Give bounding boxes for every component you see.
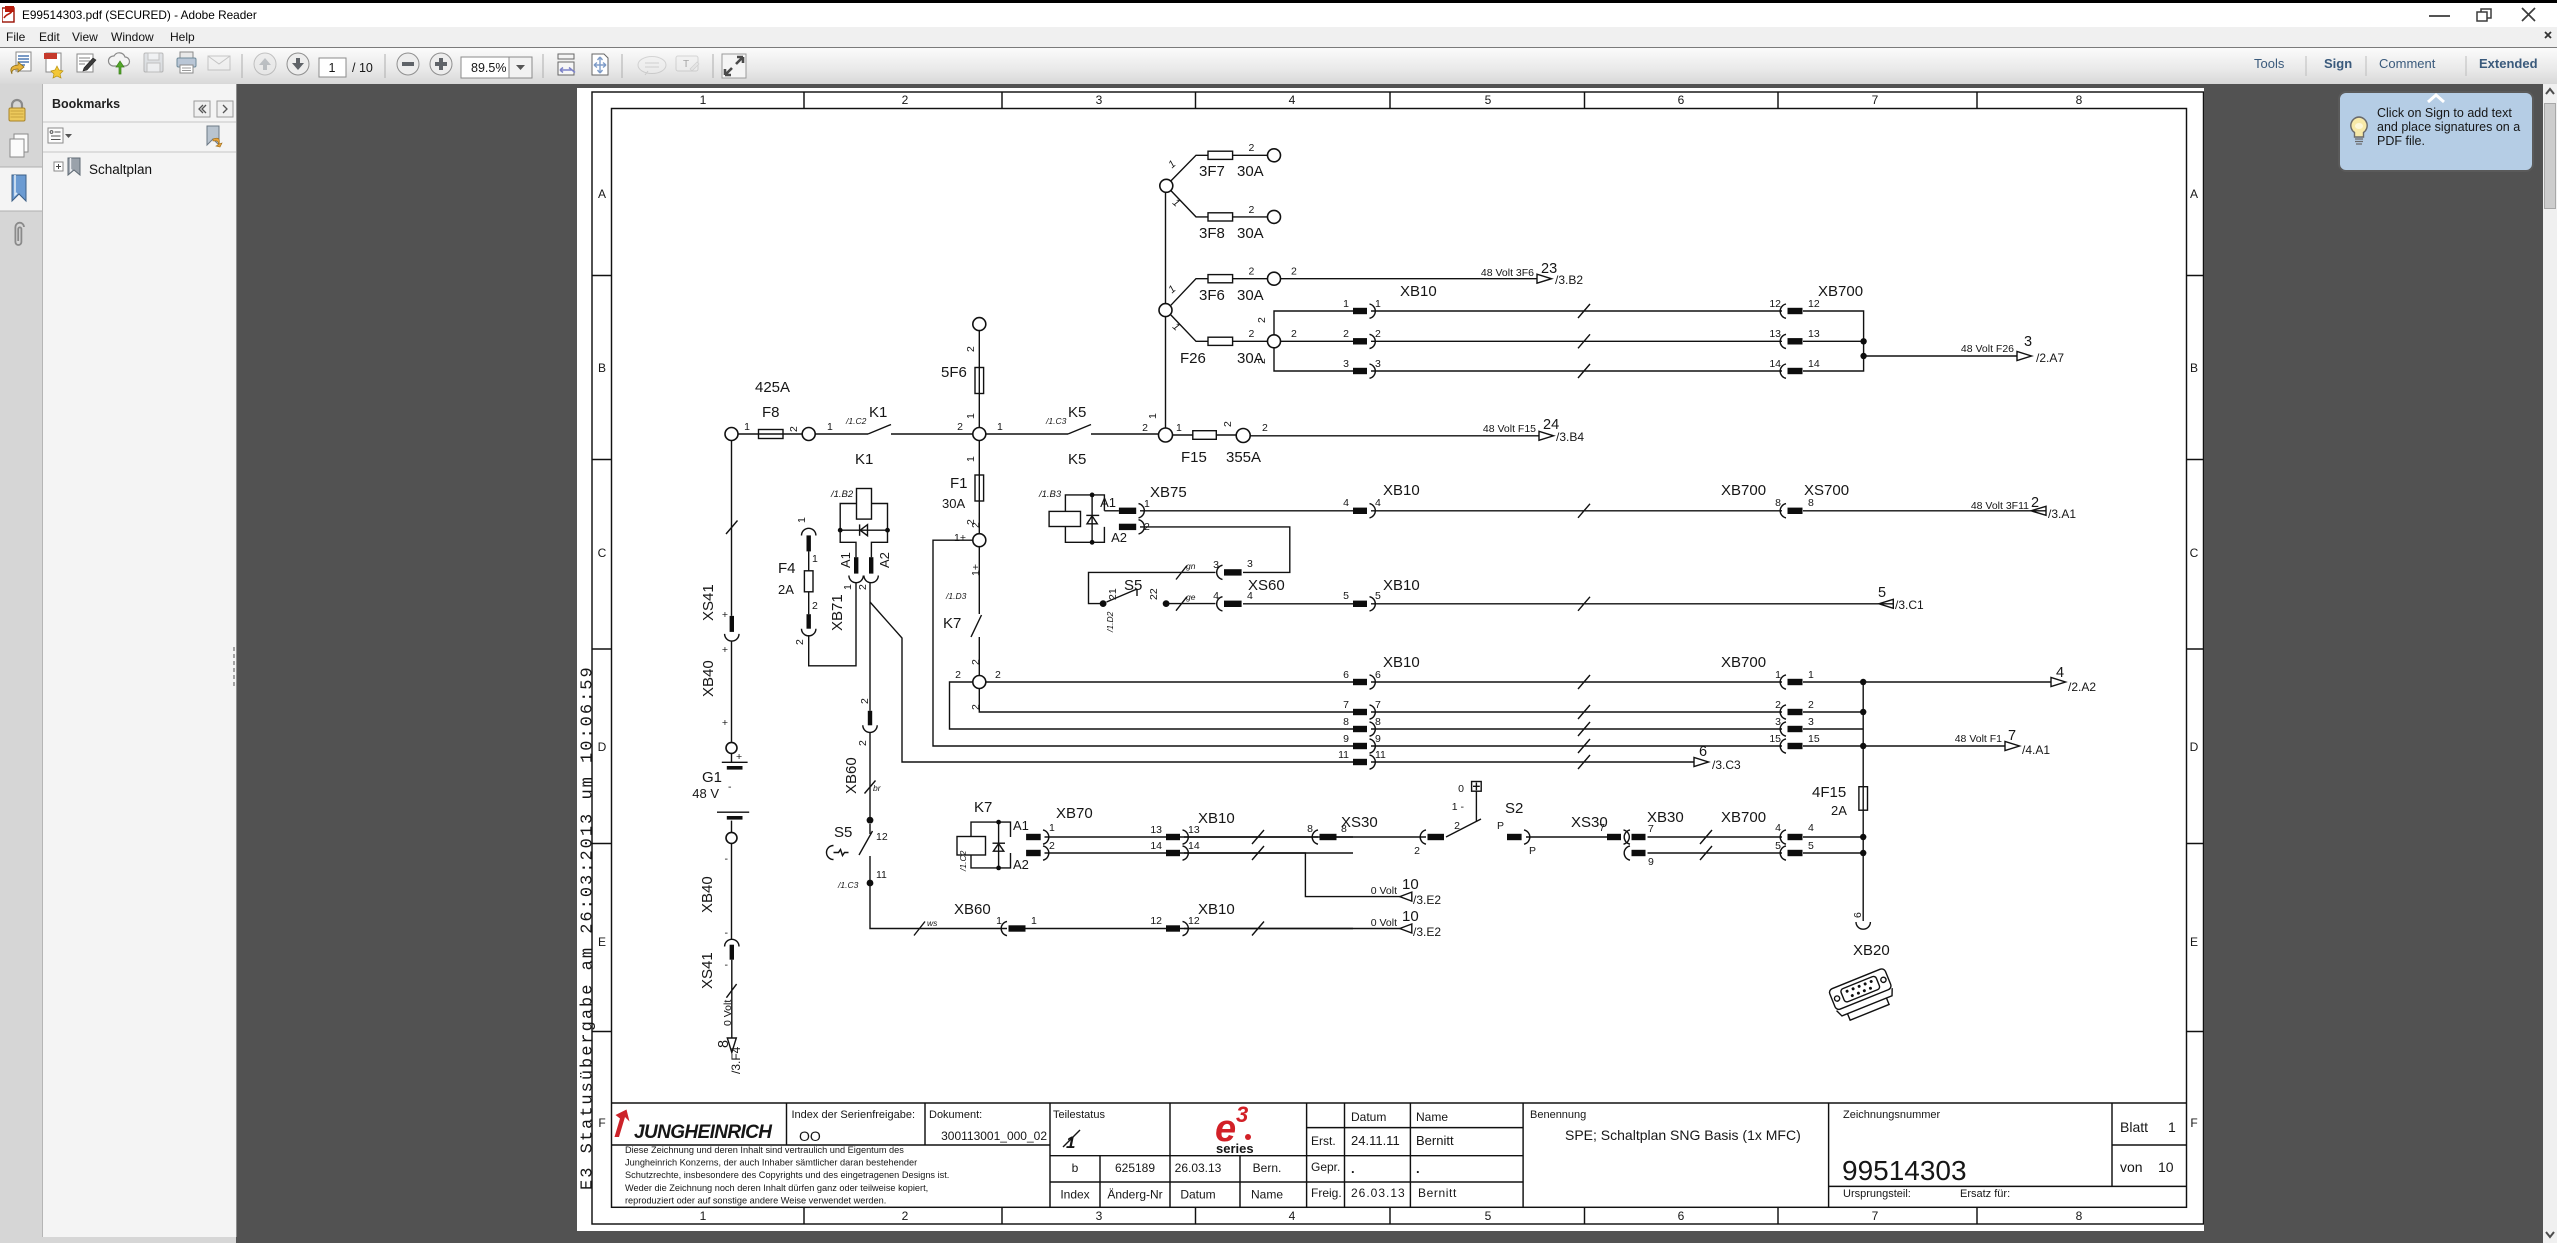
row letters left <box>598 187 607 1130</box>
wire S5.22 to XS60.4 <box>1166 603 1215 605</box>
svg-text:4: 4 <box>1375 497 1381 509</box>
svg-text:A2: A2 <box>877 552 892 568</box>
svg-text:2: 2 <box>1375 328 1381 340</box>
svg-text:14: 14 <box>1188 840 1200 852</box>
svg-text:1: 1 <box>812 553 818 565</box>
junction dot S5.12 <box>867 817 874 824</box>
svg-text:625189: 625189 <box>1115 1161 1155 1175</box>
svg-text:Bern.: Bern. <box>1253 1161 1282 1175</box>
svg-text:9: 9 <box>1648 856 1654 868</box>
connector XB10 pin 12 <box>1150 901 1234 936</box>
connector XB10 pin 8 <box>1343 716 1381 736</box>
svg-text:Änderg-Nr: Änderg-Nr <box>1107 1188 1162 1202</box>
connector XB20 D-sub icon <box>1828 968 1897 1024</box>
svg-text:6: 6 <box>1375 669 1381 681</box>
connector XB700 pin 14 <box>1769 358 1820 378</box>
svg-text:XB10: XB10 <box>1383 482 1420 499</box>
contact K1 <box>868 404 891 434</box>
connector XB700 pin 4 <box>1775 822 1814 844</box>
contact K7 (1+/2) <box>943 522 982 676</box>
svg-text:/3.A1: /3.A1 <box>2048 507 2076 521</box>
svg-text:1: 1 <box>996 915 1002 927</box>
svg-text:XB40: XB40 <box>700 660 717 697</box>
zoom combo <box>461 57 509 78</box>
svg-text:F8: F8 <box>762 404 780 421</box>
svg-text:2A: 2A <box>778 582 794 597</box>
slash row5 <box>1578 597 1590 611</box>
wires XB700 4/5 to node column <box>1803 837 1863 853</box>
wires XB30 to XB700 rows 4/5 <box>1648 837 1783 853</box>
wire battery column top (to F8) <box>731 441 733 616</box>
svg-text:A: A <box>2190 187 2198 201</box>
wire to 0 Volt arrow <box>731 960 733 1038</box>
svg-text:26.03.13: 26.03.13 <box>1175 1161 1222 1175</box>
icon cloud upload <box>108 53 129 74</box>
svg-text:2: 2 <box>902 93 909 107</box>
svg-text:14: 14 <box>1808 358 1820 370</box>
connector XB71 pin A2 <box>857 552 892 590</box>
pages icon <box>10 134 28 157</box>
svg-text:XB700: XB700 <box>1721 482 1766 499</box>
svg-text:S2: S2 <box>1505 800 1523 817</box>
svg-text:D: D <box>2190 740 2199 754</box>
slash ge <box>1176 592 1196 611</box>
svg-text:0 Volt: 0 Volt <box>1371 885 1397 897</box>
svg-text:XS41: XS41 <box>700 584 717 621</box>
tooltip content <box>2338 91 2534 172</box>
svg-text:Erst.: Erst. <box>1311 1134 1336 1148</box>
terminal circle K7 2 <box>973 676 986 689</box>
svg-text:4: 4 <box>1808 822 1814 834</box>
svg-text:425A: 425A <box>755 379 790 396</box>
svg-text:0 Volt: 0 Volt <box>722 1000 734 1026</box>
row band ticks right <box>2187 276 2204 1032</box>
wire S2 to XS30.7 <box>1526 836 1611 838</box>
svg-text:.: . <box>1351 1161 1355 1176</box>
svg-text:2: 2 <box>2031 495 2039 511</box>
padlock icon <box>9 100 25 121</box>
svg-text:3F7: 3F7 <box>1199 163 1225 180</box>
svg-text:K7: K7 <box>974 799 992 816</box>
svg-text:7: 7 <box>1343 699 1349 711</box>
svg-text:XB40: XB40 <box>699 876 716 913</box>
svg-text:4: 4 <box>1213 590 1219 602</box>
svg-text:8: 8 <box>1775 497 1781 509</box>
column band ticks top <box>804 92 1977 109</box>
terminal circle 3F8 <box>1268 210 1281 223</box>
icon print <box>177 52 196 73</box>
wire K1..K5 <box>891 433 1068 435</box>
svg-text:8: 8 <box>1343 716 1349 728</box>
svg-text:K5: K5 <box>1068 451 1086 468</box>
contact K5 <box>1068 404 1091 434</box>
wire XB70.1 to XB10.13 <box>1045 836 1354 838</box>
wire XB75.1 to XB10.4 <box>1140 510 1353 512</box>
svg-text:XB60: XB60 <box>954 901 991 918</box>
svg-text:C: C <box>2190 546 2199 560</box>
inner drawing frame <box>612 109 2187 1208</box>
svg-text:/3.E2: /3.E2 <box>1413 893 1441 907</box>
svg-text:2: 2 <box>857 584 869 590</box>
svg-text:2A: 2A <box>1831 803 1847 818</box>
row band ticks left <box>592 276 612 1032</box>
svg-text:F: F <box>2190 1116 2197 1130</box>
svg-text:2: 2 <box>995 669 1001 681</box>
wire node1..node2..F15 vertical <box>1165 192 1167 429</box>
icon zoom out <box>397 53 419 75</box>
slash gn <box>1176 561 1196 580</box>
wires XB700 row2 to node column <box>1803 682 1863 746</box>
svg-text:1: 1 <box>842 584 854 590</box>
svg-text:5: 5 <box>1343 590 1349 602</box>
svg-text:2: 2 <box>1291 266 1297 278</box>
svg-text:7: 7 <box>1599 822 1605 834</box>
svg-text:2: 2 <box>1222 421 1234 427</box>
svg-text:7: 7 <box>1375 699 1381 711</box>
svg-text:XB700: XB700 <box>1818 283 1863 300</box>
svg-text:/3.E2: /3.E2 <box>1413 925 1441 939</box>
icon email (disabled) <box>208 56 230 70</box>
svg-text:1: 1 <box>329 61 336 75</box>
svg-text:13: 13 <box>1769 328 1781 340</box>
wire 48V F26 out <box>1864 355 2017 357</box>
connector XS60 pin 4 <box>1213 577 1285 611</box>
svg-text:1: 1 <box>997 421 1003 433</box>
terminal circle F26 <box>1268 335 1281 348</box>
svg-text:3: 3 <box>1096 1209 1103 1223</box>
small close x of message bar <box>2543 30 2554 41</box>
svg-text:A: A <box>598 187 606 201</box>
wire main bus F8..K1 <box>738 433 868 435</box>
arrow 6 /3.C3 <box>1694 744 1741 772</box>
arrow out 23 /3.B2 <box>1481 261 1583 287</box>
wire battery down <box>731 843 733 939</box>
wire 5F6 branch <box>978 331 980 429</box>
svg-text:-: - <box>728 781 732 793</box>
svg-text:P: P <box>1497 820 1504 832</box>
svg-text:1: 1 <box>1808 669 1814 681</box>
connector XB60 pin (on A2 net) <box>857 698 877 746</box>
svg-text:+: + <box>722 717 728 729</box>
svg-text:/1.B3: /1.B3 <box>1038 489 1062 500</box>
wire XB60 down to S5 <box>869 733 871 821</box>
svg-text:99514303: 99514303 <box>1842 1155 1967 1186</box>
svg-text:8: 8 <box>1808 497 1814 509</box>
terminal circle 3F6 <box>1268 272 1281 285</box>
wire XS60.3 left to S5 <box>1089 572 1216 603</box>
node junction circle F8/K1 <box>802 428 815 441</box>
svg-text:F15: F15 <box>1181 449 1207 466</box>
svg-text:XB10: XB10 <box>1383 654 1420 671</box>
wire K7 1+ to XB10.9 <box>933 540 1353 746</box>
fuse 3F6 <box>1166 266 1267 306</box>
svg-text:2: 2 <box>1249 328 1255 340</box>
terminal circle K7 1+ <box>973 534 986 547</box>
svg-text:P: P <box>1529 845 1536 857</box>
fuse 4F15 <box>1812 784 1868 818</box>
svg-text:reproduziert oder auf sonstige: reproduziert oder auf sonstige andere We… <box>625 1195 886 1205</box>
svg-text:Freig.: Freig. <box>1311 1186 1342 1200</box>
wire XB70.2 to XB10.14 <box>1045 852 1354 854</box>
svg-text:XB10: XB10 <box>1198 901 1235 918</box>
svg-text:4: 4 <box>1247 590 1253 602</box>
connector XB10 pin 9 <box>1343 733 1381 753</box>
svg-text:4: 4 <box>1289 1209 1296 1223</box>
svg-text:2: 2 <box>1249 266 1255 278</box>
title block frame lines <box>612 1103 2187 1207</box>
terminal circle F15 out <box>1236 429 1250 443</box>
slash marks rows 1-3 <box>1578 304 1590 378</box>
svg-text:2: 2 <box>1808 699 1814 711</box>
svg-text:A2: A2 <box>1013 857 1029 872</box>
connector XB10 pin 7 <box>1343 699 1381 719</box>
svg-text:4: 4 <box>1289 93 1296 107</box>
svg-text:/1.B2: /1.B2 <box>830 489 854 500</box>
svg-text:1: 1 <box>1031 915 1037 927</box>
svg-text:12: 12 <box>1769 298 1781 310</box>
svg-text:K7: K7 <box>943 615 961 632</box>
svg-text:30A: 30A <box>1237 163 1264 180</box>
paperclip icon <box>15 223 24 245</box>
svg-text:/3.B2: /3.B2 <box>1555 273 1583 287</box>
connector XB700 pin 13 <box>1769 328 1820 349</box>
wire K7 2 to XB10.7 <box>979 689 1353 713</box>
bookmarks tab selected <box>0 167 42 211</box>
svg-text:Zeichnungsnummer: Zeichnungsnummer <box>1843 1109 1941 1121</box>
svg-text:2: 2 <box>1142 422 1148 434</box>
svg-text:3: 3 <box>1096 93 1103 107</box>
svg-text:/1.C2: /1.C2 <box>845 416 867 426</box>
svg-text:/2.A7: /2.A7 <box>2036 351 2064 365</box>
svg-text:ge: ge <box>1186 592 1196 602</box>
svg-text:/ 10: / 10 <box>352 61 373 75</box>
connector XB30 pin 7 <box>1624 809 1684 844</box>
svg-text:24.11.11: 24.11.11 <box>1351 1133 1400 1148</box>
slash row12 <box>1252 922 1264 936</box>
svg-text:+: + <box>722 609 728 621</box>
connector XB30 pin 9 <box>1624 846 1654 868</box>
connector XB10 pin 11 <box>1338 749 1386 769</box>
svg-text:XB10: XB10 <box>1400 283 1437 300</box>
svg-text:11: 11 <box>876 869 887 881</box>
arrow 7 /4.A1 <box>1955 728 2051 757</box>
node junction circle K5 <box>973 428 986 441</box>
svg-text:1: 1 <box>827 421 833 433</box>
wire A1 loop to F4 <box>809 583 856 666</box>
node 3F7/3F8 branch circle <box>1160 179 1173 192</box>
connector XB700 pin 12 <box>1769 298 1820 318</box>
icon comment bubble (disabled) <box>638 57 666 76</box>
svg-text:2: 2 <box>1343 328 1349 340</box>
svg-text:Benennung: Benennung <box>1530 1109 1586 1121</box>
svg-text:Jungheinrich Konzerns, der auc: Jungheinrich Konzerns, der auch Inhaber … <box>625 1158 917 1168</box>
arrow 5 /3.C1 <box>1878 585 1924 612</box>
svg-text:/3.C3: /3.C3 <box>1712 758 1741 772</box>
svg-text:gn: gn <box>1186 561 1196 571</box>
relay coil K1 with diode <box>830 489 890 558</box>
lightbulb <box>2351 117 2367 144</box>
fuse 3F8 <box>1170 191 1267 243</box>
slash XS41 lower <box>726 984 736 998</box>
wires XB10..XB700 rows 1-3 <box>1371 311 1782 371</box>
svg-text:10: 10 <box>2158 1159 2174 1175</box>
svg-text:3F6: 3F6 <box>1199 287 1225 304</box>
svg-text:1 -: 1 - <box>1452 801 1465 813</box>
options icon <box>48 128 72 143</box>
svg-text:2: 2 <box>1256 317 1268 323</box>
svg-text:Bernitt: Bernitt <box>1418 1186 1457 1200</box>
svg-text:7: 7 <box>1872 93 1879 107</box>
svg-text:E: E <box>598 935 606 949</box>
wire K7 2 to XB10.8 <box>950 682 1354 729</box>
svg-text:2: 2 <box>1256 358 1268 364</box>
junction dot S5.11 <box>867 880 874 887</box>
svg-text:/3.F4: /3.F4 <box>729 1046 743 1074</box>
connector XB10 pin 13 (bottom block) <box>1150 810 1234 844</box>
icon page down <box>287 53 309 75</box>
icon save floppy (disabled) <box>144 53 163 72</box>
svg-text:6: 6 <box>1343 669 1349 681</box>
wire A2 down to XB60 <box>869 583 871 711</box>
svg-text:Index der Serienfreigabe:: Index der Serienfreigabe: <box>792 1109 916 1121</box>
connector XB700 pin 3 <box>1775 716 1814 736</box>
svg-text:+: + <box>722 644 728 656</box>
relay coil K75 with diode (/1.B3) <box>1038 489 1104 545</box>
connector XB10 pin 3 <box>1343 358 1381 378</box>
svg-text:XB75: XB75 <box>1150 484 1187 501</box>
wire XB700 fan-in to node <box>1803 311 1864 371</box>
svg-text:-: - <box>725 927 729 939</box>
svg-text:+: + <box>736 751 742 763</box>
left tab strip icons <box>0 84 42 344</box>
connector XB700 pin 15 <box>1769 733 1820 753</box>
outer drawing frame <box>592 92 2204 1224</box>
svg-text:B: B <box>598 361 606 375</box>
svg-text:K5: K5 <box>1068 404 1086 421</box>
svg-text:Datum: Datum <box>1180 1188 1215 1202</box>
svg-text:/2.A2: /2.A2 <box>2068 680 2096 694</box>
svg-text:1: 1 <box>1049 822 1055 834</box>
svg-text:48 V: 48 V <box>692 786 719 801</box>
wire XB10.4 to XB700.8 <box>1371 510 1782 512</box>
svg-text:E3 Statusübergabe am 26:03:201: E3 Statusübergabe am 26:03:2013 um 10:06… <box>579 665 598 1190</box>
svg-text:2: 2 <box>955 669 961 681</box>
fuse F4 with pins <box>778 517 818 645</box>
connector XB700 pin 1 <box>1775 669 1814 689</box>
svg-text:Index: Index <box>1060 1188 1089 1202</box>
svg-text:2: 2 <box>1249 142 1255 154</box>
svg-text:12: 12 <box>1808 298 1820 310</box>
junction dots column <box>1860 679 1866 685</box>
svg-text:Schutzrechte, insbesondere des: Schutzrechte, insbesondere des Copyright… <box>625 1170 949 1180</box>
svg-text:XB60: XB60 <box>843 757 860 794</box>
scrollbar arrows <box>2543 84 2557 100</box>
svg-text:6: 6 <box>1678 93 1685 107</box>
connector pin S2 P <box>1507 830 1536 857</box>
svg-text:22: 22 <box>1148 588 1160 600</box>
svg-text:3: 3 <box>1343 358 1349 370</box>
svg-text:-: - <box>725 959 729 971</box>
slash row13 <box>1252 830 1264 844</box>
svg-text:2: 2 <box>970 659 982 665</box>
svg-text:3: 3 <box>1213 559 1219 571</box>
svg-text:89.5%: 89.5% <box>471 61 506 75</box>
svg-text:1: 1 <box>796 517 808 523</box>
svg-text:T: T <box>683 59 689 70</box>
svg-text:1+: 1+ <box>970 564 982 576</box>
svg-text:3: 3 <box>1236 1102 1248 1127</box>
tree: expand + bookmark <box>54 162 63 171</box>
svg-text:8: 8 <box>1375 716 1381 728</box>
svg-text:Diese Zeichnung und deren Inha: Diese Zeichnung und deren Inhalt sind ve… <box>625 1145 904 1155</box>
page number box <box>319 58 346 77</box>
column band ticks bottom <box>804 1207 1977 1224</box>
wire XB75.2 to XS60.3 <box>1140 527 1290 573</box>
svg-text:0: 0 <box>1458 783 1464 795</box>
icon open/save <box>11 52 31 74</box>
junction dots <box>1860 834 1866 840</box>
slash br <box>865 781 882 794</box>
slashes <box>1700 830 1712 860</box>
switch S5 (12-11) <box>827 824 888 890</box>
wire 48V F15 out <box>1250 435 1539 437</box>
svg-text:6: 6 <box>1699 744 1707 760</box>
svg-text:2: 2 <box>965 346 977 352</box>
connector XB75 pin A2/2 <box>1111 520 1150 545</box>
fuse 5F6 <box>941 346 984 419</box>
legal text <box>625 1145 949 1205</box>
svg-text:/1.D3: /1.D3 <box>945 591 967 601</box>
svg-text:21: 21 <box>1107 588 1119 600</box>
svg-text:von: von <box>2120 1159 2143 1175</box>
window buttons <box>2425 6 2555 24</box>
svg-text:F26: F26 <box>1180 350 1206 367</box>
svg-text:/3.B4: /3.B4 <box>1556 430 1584 444</box>
svg-text:br: br <box>873 783 882 793</box>
icon fullscreen <box>722 54 746 78</box>
svg-text:1: 1 <box>744 421 750 433</box>
terminal circle F8 left <box>725 428 738 441</box>
fuse F15 <box>1173 421 1262 466</box>
svg-text:15: 15 <box>1769 733 1781 745</box>
svg-text:-: - <box>725 853 729 865</box>
svg-text:Ursprungsteil:: Ursprungsteil: <box>1843 1188 1911 1200</box>
slash row4 <box>1578 504 1590 518</box>
slash ws <box>914 918 938 936</box>
svg-text:2: 2 <box>812 600 818 612</box>
svg-text:5: 5 <box>1808 840 1814 852</box>
svg-text:1+: 1+ <box>954 532 966 544</box>
wire XB10.13 to XS30.8 <box>1184 836 1318 838</box>
svg-text:4: 4 <box>1775 822 1781 834</box>
svg-text:48 Volt 3F6: 48 Volt 3F6 <box>1481 267 1534 279</box>
connector XB75 pin A1/1 <box>1100 495 1150 518</box>
wire XB71-A2 branch to XB10.11 <box>870 602 1353 762</box>
connector XB70 pin A1/1 <box>1013 818 1055 844</box>
connector XB10 pin 1 <box>1343 298 1381 318</box>
svg-text:XS41: XS41 <box>699 952 716 989</box>
connector XB10 pin 4 <box>1343 482 1420 518</box>
svg-text:2: 2 <box>1262 422 1268 434</box>
svg-text:13: 13 <box>1188 824 1200 836</box>
connector XB20 pin 6 <box>1852 912 1870 929</box>
slash row14 <box>1252 846 1264 860</box>
svg-text:30A: 30A <box>1237 225 1264 242</box>
svg-text:13: 13 <box>1150 824 1162 836</box>
svg-text:3: 3 <box>1808 716 1814 728</box>
svg-text:A1: A1 <box>1013 818 1029 833</box>
connector XB40/XS41 pin upper <box>700 584 739 697</box>
